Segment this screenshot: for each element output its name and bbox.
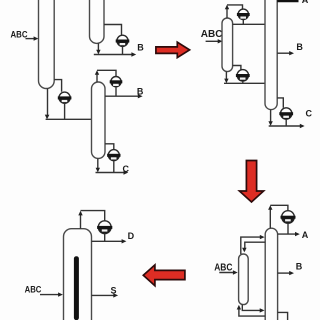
condenser E5 (circle) bbox=[238, 9, 248, 19]
wire product B line 4 bbox=[278, 272, 292, 274]
reboiler E4 (circle) bbox=[108, 150, 119, 161]
wire feed arrow 4 bbox=[40, 294, 61, 296]
dividing wall bbox=[74, 256, 79, 320]
reboiler E7 (circle) bbox=[281, 108, 292, 119]
svg-text:ABC: ABC bbox=[11, 30, 28, 41]
wire bottom coupling riser to main column bbox=[242, 305, 262, 311]
wire C2-1 overhead riser with up arrow bbox=[226, 7, 228, 18]
wire product B line 2 bbox=[105, 95, 141, 97]
wire C2-1 overhead line to condenser bbox=[227, 5, 243, 9]
wire reboiler E4 down bbox=[113, 161, 115, 173]
svg-text:B: B bbox=[137, 43, 144, 53]
svg-text:D: D bbox=[128, 231, 135, 241]
wire C1-1 side draw to condenser bbox=[54, 80, 61, 92]
wire product B line 3 bbox=[277, 52, 292, 54]
wire C3-2 overhead line to condenser bbox=[270, 205, 288, 210]
wire condenser E5 down bbox=[242, 20, 244, 25]
wire C4 overhead line to condenser bbox=[81, 211, 105, 221]
svg-text:B: B bbox=[296, 261, 303, 271]
wire product C line 1 bbox=[96, 172, 127, 174]
svg-text:A: A bbox=[302, 230, 309, 240]
wire C1-3 side to reboiler bbox=[105, 144, 114, 150]
wire product B line 1 bbox=[94, 54, 134, 56]
svg-text:C: C bbox=[123, 164, 130, 174]
wire product C line 2 bbox=[269, 125, 303, 127]
wire bottoms transfer line to main column bbox=[224, 82, 265, 84]
column C3-1 (side column) bbox=[239, 254, 249, 305]
wire product A line 2 bbox=[278, 233, 298, 235]
wire C2-1 side draw to condenser E6 bbox=[233, 66, 241, 70]
wire product S line bbox=[92, 294, 116, 296]
wire bottom coupling return with up arrow bbox=[239, 307, 265, 316]
svg-text:C: C bbox=[306, 109, 313, 119]
wire C4 overhead riser with up arrow bbox=[80, 212, 82, 228]
column C2-1 (side column) bbox=[222, 18, 233, 72]
svg-text:ABC: ABC bbox=[214, 262, 232, 273]
wire feed arrow 2 bbox=[206, 40, 221, 42]
wire condenser E9 down bbox=[104, 234, 106, 242]
wire condenser E3 down bbox=[115, 87, 117, 97]
condenser E6 (circle) bbox=[237, 70, 248, 81]
wire product D line bbox=[92, 240, 125, 242]
wire feed arrow 1 bbox=[26, 38, 37, 40]
wire C1-2 bottoms down arrow bbox=[97, 43, 99, 52]
wire C3-2 overhead riser with up arrow bbox=[269, 207, 271, 228]
wire condenser E2 down to transfer line bbox=[64, 103, 66, 119]
wire reboiler E7 down bbox=[285, 119, 287, 126]
wire transfer line to column C1-3 bbox=[46, 118, 92, 120]
condenser E8 (circle) bbox=[282, 211, 295, 224]
svg-text:ABC: ABC bbox=[201, 29, 223, 40]
svg-text:B: B bbox=[296, 42, 303, 52]
svg-text:B: B bbox=[137, 87, 144, 97]
svg-text:A: A bbox=[302, 0, 309, 5]
wire C1-3 overhead riser with up arrow bbox=[96, 72, 98, 82]
wire C2-1 bottoms down arrow bbox=[225, 72, 227, 82]
wire C3-2 to reboiler stub (cut) bbox=[278, 312, 288, 320]
wire C1-1 bottoms down arrow bbox=[47, 88, 49, 117]
wire C2-2 side to reboiler bbox=[277, 98, 283, 108]
wire C1-3 bottoms down arrow bbox=[97, 159, 99, 171]
column C1-1 bbox=[39, 0, 55, 89]
column C3-2 (main) bbox=[265, 228, 277, 320]
column C1-3 bbox=[92, 82, 106, 159]
column C4 (dividing wall column) bbox=[64, 229, 92, 320]
column C1-2 bbox=[90, 0, 105, 43]
svg-text:S: S bbox=[111, 286, 117, 296]
wire condenser E8 down bbox=[287, 223, 289, 234]
wire C1-2 overhead to condenser bbox=[104, 25, 122, 36]
wire condenser E6 down bbox=[242, 81, 244, 83]
condenser E3 (circle) bbox=[111, 77, 121, 87]
wire product A line (cut at top) bbox=[277, 0, 298, 2]
wire C1-3 overhead line to condenser bbox=[97, 70, 116, 76]
column C2-2 (main) bbox=[265, 0, 277, 110]
condenser E1 (circle) bbox=[117, 35, 128, 46]
wire top coupling riser to main column bbox=[241, 237, 263, 254]
wire C2-2 bottoms down arrow bbox=[270, 110, 272, 125]
condenser E9 (circle) bbox=[98, 221, 111, 234]
svg-text:ABC: ABC bbox=[25, 285, 42, 295]
wire condenser E1 down bbox=[122, 46, 124, 54]
wire condensate line to main column bbox=[233, 23, 265, 25]
wire feed arrow 3 bbox=[219, 272, 235, 274]
wire top coupling downcomer with down arrow bbox=[245, 242, 265, 250]
condenser E2 (circle) bbox=[59, 92, 70, 103]
